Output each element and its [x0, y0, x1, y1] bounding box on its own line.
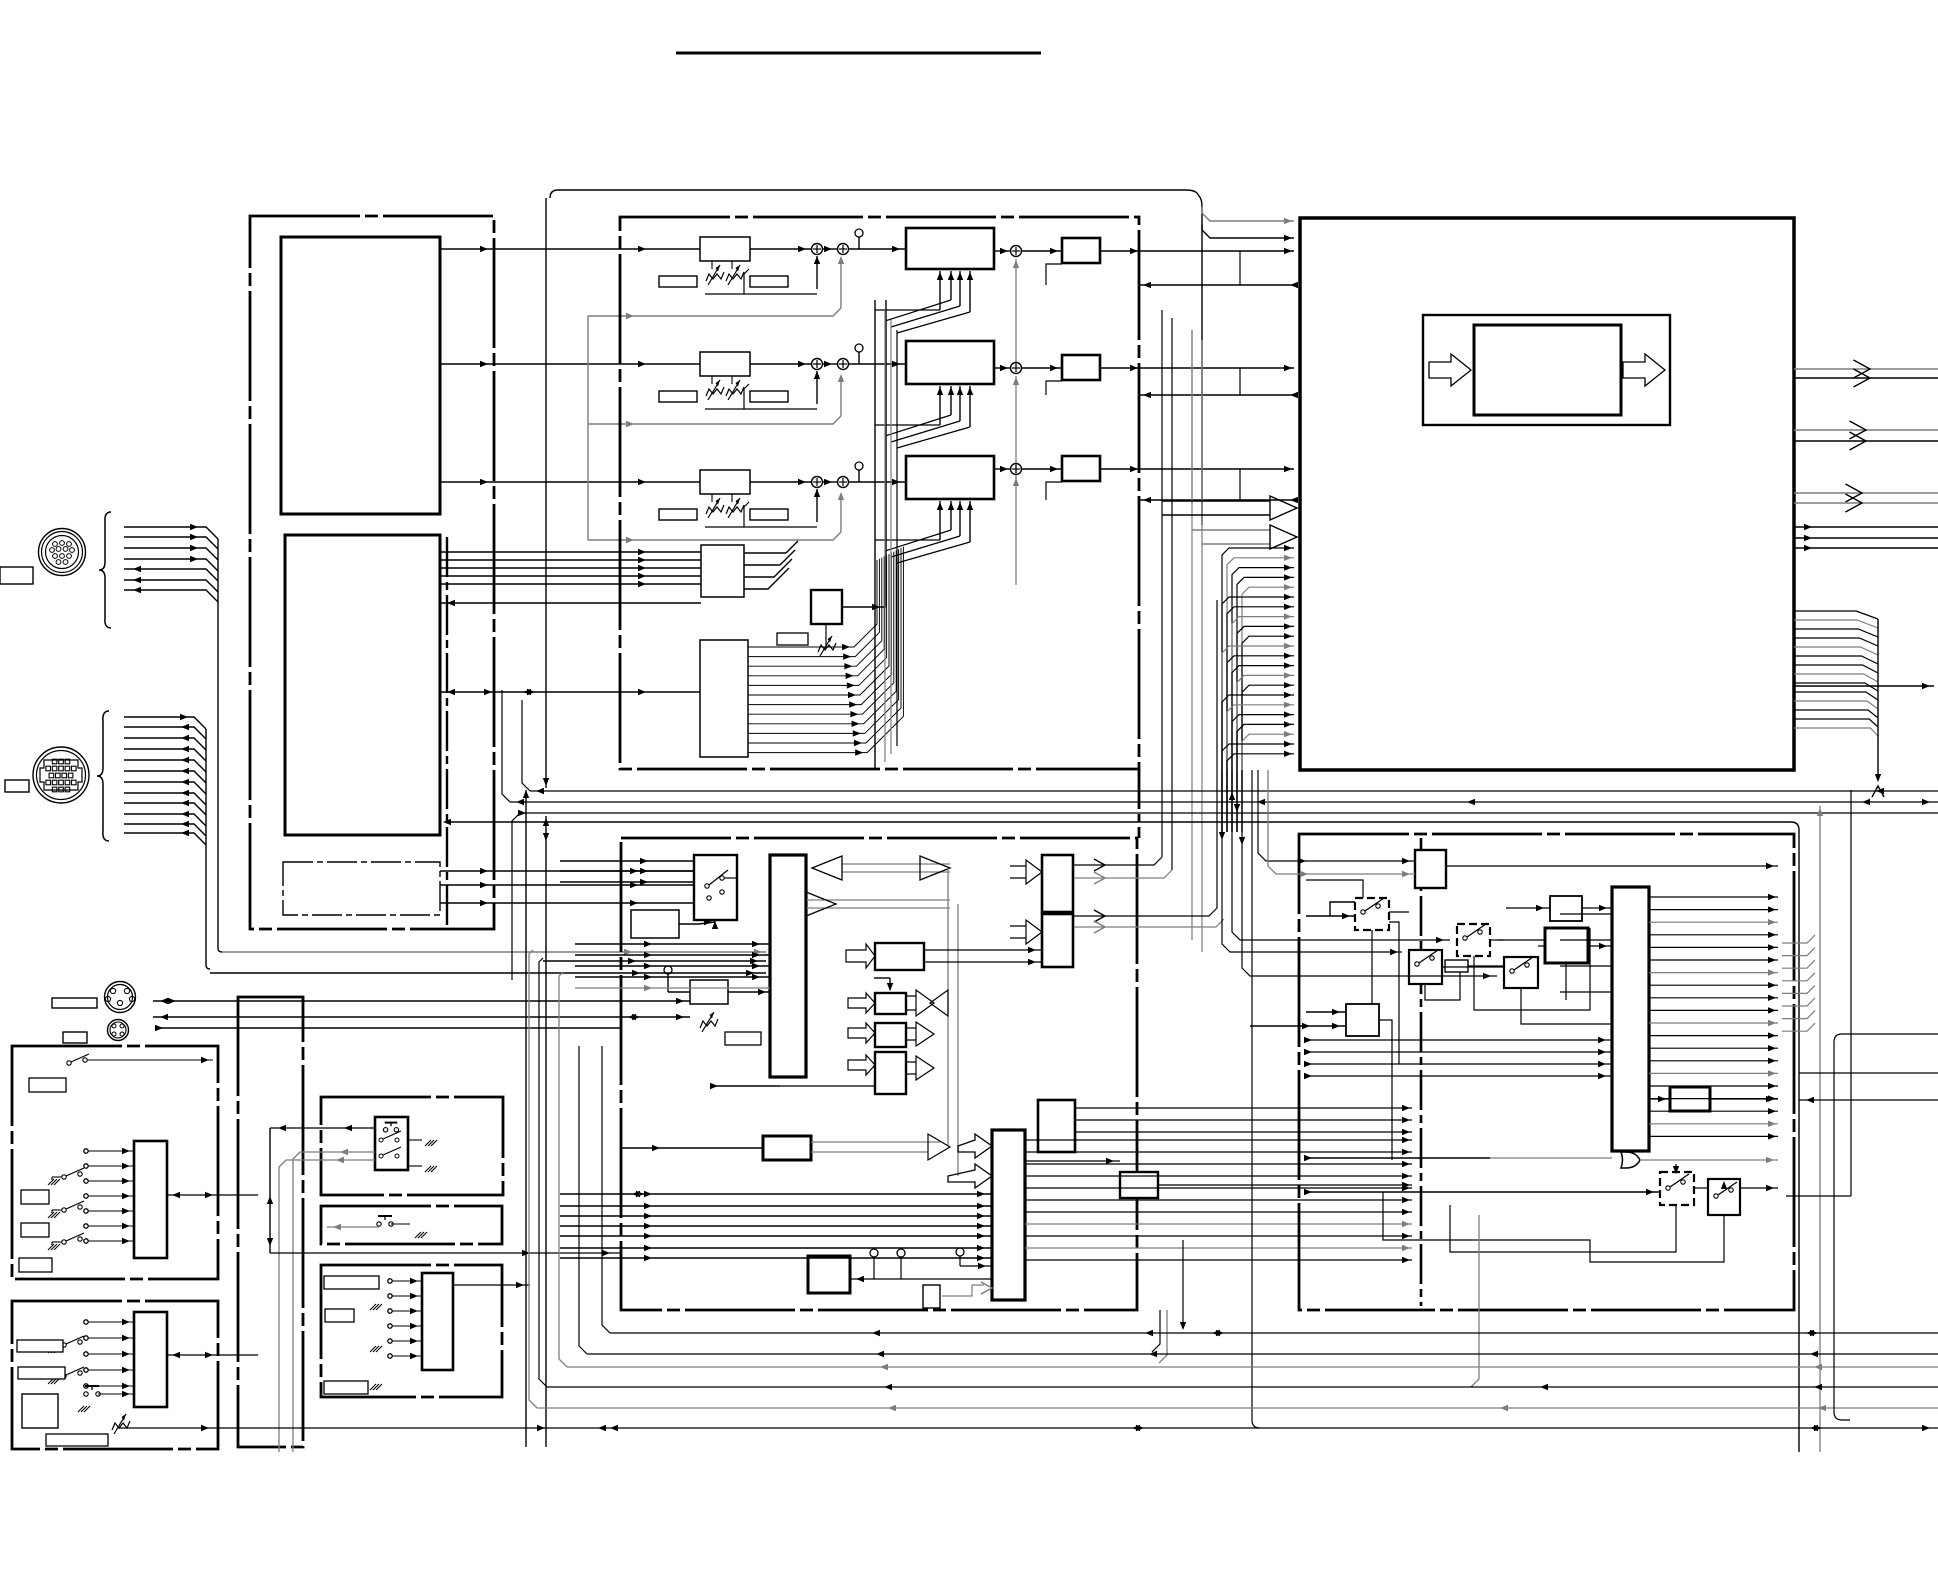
net bus Y791 — [530, 788, 1938, 794]
net bus Y1333 — [602, 1046, 1938, 1336]
wire outamp — [1649, 1096, 1778, 1102]
wire elbow 802 — [502, 690, 510, 802]
rect key B2 — [46, 1434, 108, 1446]
connector CN2 tab — [5, 780, 29, 792]
wire pll out gray — [811, 1134, 950, 1160]
rect din small — [63, 1032, 87, 1043]
board outline keypad A — [12, 1046, 218, 1279]
rect ref — [725, 1032, 761, 1045]
wire vert bundle up — [875, 300, 897, 770]
wire gray vert 1192 — [1191, 330, 1193, 940]
wire fan CN1 — [124, 524, 218, 602]
block fifo A — [1042, 855, 1073, 912]
wire mixer — [1538, 943, 1612, 949]
net bus Y813 — [518, 810, 1938, 816]
wire gray aux R2 — [588, 374, 844, 427]
rect xtal — [923, 1285, 940, 1308]
wire gray vert 948 — [947, 868, 949, 1146]
wire feed Y221 — [1202, 207, 1294, 224]
sync outputs right — [1794, 524, 1938, 551]
pin p3 — [956, 1248, 964, 1266]
bus bevels up — [1782, 935, 1815, 1031]
wire bidir Y692 — [440, 689, 700, 695]
brace CN2 signals — [97, 711, 109, 841]
arrow into eqD — [848, 1055, 875, 1075]
wire osc up — [679, 919, 718, 929]
bus thin outline right — [443, 819, 1799, 1452]
bus arrow B into IC — [1192, 525, 1297, 549]
wire head out — [1446, 863, 1778, 869]
wire bundle into servo — [560, 1191, 992, 1261]
block key encoder A — [134, 1141, 167, 1258]
wire R1 input — [440, 246, 700, 252]
pin p2 — [897, 1249, 905, 1279]
net bus Y1387 — [539, 958, 1938, 1390]
net bus Y1354 — [579, 1046, 1938, 1357]
wire vert 1851 — [1786, 790, 1851, 1196]
wire out Y686 — [1794, 683, 1934, 689]
wire regulator outputs — [440, 868, 694, 906]
connector CN2 DSUB — [33, 747, 89, 803]
wire Y1001 — [153, 998, 690, 1004]
rects jog — [324, 1276, 379, 1394]
wire jog out — [453, 1282, 530, 1288]
varistor B — [112, 1414, 130, 1434]
wire vert x546b — [543, 816, 549, 1447]
wire head in1 — [1258, 770, 1415, 864]
wire gray vert 958 — [957, 904, 959, 1176]
arrow into memory — [1429, 354, 1471, 386]
wire s2 — [1306, 902, 1372, 938]
wire vert 1252 — [1252, 770, 1260, 1428]
wire pll in — [621, 1145, 763, 1151]
net bus Y961 — [543, 958, 766, 964]
block eq B — [875, 993, 906, 1014]
switch box S3 — [1409, 950, 1442, 984]
connector DIN middle — [105, 982, 136, 1013]
wire sw inter2 — [1346, 938, 1460, 1010]
wire lpf — [1506, 905, 1612, 911]
wire mode in — [1250, 1009, 1346, 1029]
channel R2 — [659, 341, 1298, 484]
wire fan CN2 — [124, 714, 206, 845]
wire sw inter1 — [1389, 912, 1504, 967]
bus vert 1878 down — [1872, 619, 1884, 797]
channel R3 — [659, 456, 1298, 585]
block sensor amp — [808, 1256, 850, 1293]
wire gray vert 1820 — [1817, 806, 1823, 1452]
board outline left PCB — [250, 216, 494, 929]
wire Y1253 — [270, 1250, 621, 1256]
net bus Y973 — [210, 970, 766, 976]
wire timing feeds — [1497, 914, 1612, 992]
wire eqD bottom — [710, 1083, 875, 1089]
block out amp — [1670, 1087, 1710, 1111]
wire jog inputs — [388, 1278, 422, 1359]
bus vert through gap — [1219, 770, 1497, 979]
bus fan into IC lower — [1222, 545, 1294, 832]
block head amp — [1415, 850, 1446, 888]
board outline cassette SW — [321, 1097, 503, 1195]
wire bundle into DSP — [560, 858, 770, 991]
pin p1 — [870, 1249, 878, 1279]
wire bundle R4 inputs — [440, 549, 701, 606]
block regulator — [283, 862, 440, 915]
switch group B — [48, 1336, 84, 1384]
board outline rec SW — [321, 1206, 502, 1244]
wire keyB out — [167, 1352, 258, 1358]
switch top A — [67, 1054, 213, 1065]
wire vert 1162 — [1161, 310, 1163, 857]
wire keyA out — [167, 1192, 258, 1198]
wire sw bottom2 — [1383, 1192, 1724, 1262]
wire eqA out — [924, 947, 1042, 965]
block camera process IC — [281, 237, 440, 514]
wire corner 1834 — [1834, 1034, 1938, 1420]
switch box S7 — [1708, 1179, 1740, 1228]
block R4 mux — [701, 300, 886, 656]
wire vert 270 — [267, 1128, 273, 1253]
arrow into fifoA — [1010, 860, 1042, 884]
wire cassette3 — [279, 1157, 375, 1452]
bus bidir gray A — [812, 856, 950, 880]
gnd cassette — [408, 1140, 437, 1172]
block timing gen — [1612, 887, 1649, 1151]
connector CN1 DIN — [39, 529, 86, 576]
block pll — [763, 1136, 811, 1160]
connector DIN small — [108, 1020, 129, 1041]
switch box S6 — [1660, 1164, 1694, 1205]
net bus Y1428 — [118, 1425, 1938, 1431]
board outline keypad B — [12, 1301, 218, 1449]
wire vert 1479 — [1471, 1215, 1479, 1387]
wire gray vert 1202b — [1201, 340, 1203, 952]
arrow into servo A — [958, 1134, 992, 1158]
arrow into servo B — [948, 1164, 992, 1188]
channel R1 — [659, 228, 1298, 367]
bus dac outputs — [1024, 1105, 1412, 1188]
wire vert 1160 — [1152, 1310, 1160, 1352]
block lpf — [1550, 896, 1582, 921]
wire cassette1 — [270, 1125, 375, 1131]
wire vert 1172 — [1171, 318, 1173, 870]
wire R3 input — [440, 479, 700, 485]
wire agc out — [728, 989, 770, 995]
wire sw bottom — [1304, 1185, 1778, 1195]
block memory outer — [1423, 315, 1670, 425]
wire right edge lines — [1799, 1073, 1938, 1103]
wire rec sw — [327, 1224, 379, 1230]
wire R2 input — [440, 361, 700, 367]
block eq C — [875, 1023, 906, 1047]
bus timing outputs — [1649, 894, 1778, 1140]
block signal IC2 — [285, 535, 440, 835]
wire vert 1183 — [1180, 1240, 1186, 1330]
wire mode out — [1379, 1020, 1392, 1160]
wire bus CN2 down — [206, 729, 210, 969]
wire elbow 791 — [522, 700, 530, 791]
wire eqB top — [874, 978, 893, 991]
bus rounded corner top — [550, 190, 1202, 525]
block main video IC — [1300, 218, 1794, 770]
switch box S4 — [1457, 924, 1490, 956]
block input switch — [694, 855, 737, 920]
arrow fifoA out — [1074, 857, 1162, 871]
wire sensor wiring — [850, 1263, 992, 1296]
net bus Y1367 — [559, 972, 1938, 1370]
push SW B — [78, 1386, 134, 1412]
varistor agc — [700, 1012, 718, 1032]
arrow out memory — [1623, 354, 1665, 386]
switch S1 — [705, 870, 737, 900]
brace CN1 signals — [99, 512, 111, 628]
arrow into eqB — [848, 993, 875, 1013]
bus arrow A into IC — [1162, 496, 1297, 520]
arrow into eqC — [848, 1023, 875, 1043]
board outline jog SW — [321, 1265, 502, 1397]
wire head in2 — [1268, 770, 1415, 877]
block cassette switch — [375, 1117, 408, 1170]
net bus Y802 — [510, 799, 1938, 805]
arrow out eqC — [906, 1022, 934, 1046]
wire gray aux R1 — [588, 256, 844, 319]
rects key B — [17, 1340, 65, 1428]
arrow fifoB out2 — [1074, 919, 1224, 933]
arrow fifoB out — [1074, 600, 1217, 922]
connector CN1 tab — [0, 567, 33, 584]
wire Y1028 — [155, 1025, 620, 1031]
pin agc — [664, 966, 690, 992]
wire key inputs B — [84, 1319, 134, 1389]
wire bidir Y1017 — [153, 1014, 690, 1020]
gnd jog — [370, 1304, 382, 1390]
block eq D — [875, 1052, 906, 1094]
arrow fifoA out2 — [1074, 870, 1172, 884]
block ref2 — [1120, 1172, 1158, 1198]
wire vert 1167 — [1159, 1310, 1167, 1363]
board outline jack strip — [238, 997, 303, 1447]
block servo IC — [992, 1130, 1025, 1300]
block eq A — [875, 943, 924, 970]
rect din mid — [52, 998, 97, 1008]
block agc — [690, 980, 728, 1004]
board divider X447 — [446, 537, 448, 925]
wire bus CN1 down — [218, 539, 222, 952]
wire cassette2 — [293, 1149, 375, 1452]
switch box S2 — [1355, 898, 1389, 930]
rect r1 — [1445, 960, 1468, 972]
wire key inputs A — [84, 1148, 134, 1244]
switch group A — [48, 1168, 84, 1250]
gate OR1 — [1621, 1152, 1778, 1168]
title underline — [676, 52, 1041, 55]
block osc — [631, 910, 679, 938]
board outline top-middle PCB — [620, 217, 1139, 769]
block jog encoder — [422, 1273, 453, 1370]
bus fan right to down — [1794, 611, 1878, 736]
block R4 decoder fan — [700, 547, 903, 757]
wire gray riser — [587, 316, 589, 540]
net bus Y952 — [222, 949, 766, 955]
board outline bottom-middle PCB — [621, 838, 1137, 1310]
bus servo outputs — [1025, 1137, 1412, 1263]
push rec SW — [377, 1216, 427, 1238]
block key encoder B — [134, 1312, 167, 1407]
block fifo B — [1042, 914, 1073, 967]
wire gray aux R3 — [588, 492, 844, 543]
rect key A2 — [29, 1078, 66, 1092]
block audio DSP — [770, 855, 806, 1077]
net bus Y1408 — [529, 950, 1938, 1411]
board border continuation — [1138, 769, 1141, 838]
arrow out eqD — [906, 1056, 934, 1080]
wire vert x546 — [543, 198, 549, 788]
wire BR web — [1304, 880, 1612, 1079]
block mixer — [1545, 928, 1588, 963]
block memory inner — [1474, 325, 1621, 415]
block mode — [1346, 1004, 1379, 1036]
board inner border X1421 — [1420, 838, 1423, 1306]
wire elbow 813 — [512, 813, 520, 980]
arrow into eqA — [846, 944, 875, 968]
wire vert x526 — [523, 790, 529, 1447]
wire sw bottom3 — [1450, 1205, 1676, 1252]
block dac — [1038, 1100, 1075, 1152]
video outputs right — [1794, 360, 1938, 512]
wire feed Y238 — [1202, 224, 1294, 241]
arrow into fifoB — [1010, 920, 1042, 944]
wire or in — [1304, 1155, 1612, 1161]
board outline bottom-right PCB — [1299, 834, 1794, 1310]
switch box S5 — [1504, 957, 1538, 988]
arrow bidir eqB — [906, 990, 948, 1016]
bus arrow gray B — [806, 892, 950, 916]
rects key A — [19, 1190, 52, 1272]
